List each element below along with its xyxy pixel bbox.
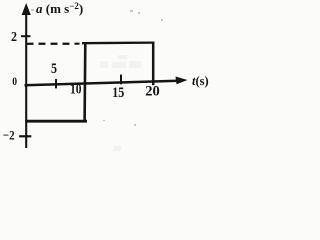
tick y=-2 (19, 135, 31, 137)
svg-text:−2: −2 (3, 127, 15, 142)
step vertical at t=20 (152, 42, 155, 85)
y-axis (25, 11, 27, 148)
dashed guide line at a=2 (27, 43, 80, 45)
tick y=2 (21, 35, 31, 37)
step vertical at t=10 (83, 42, 86, 122)
x-axis arrowhead (176, 77, 188, 85)
svg-text:20: 20 (145, 84, 160, 100)
scan noise specks (31, 9, 163, 126)
svg-text:15: 15 (112, 85, 124, 101)
tick t=5 (55, 79, 57, 88)
x-axis (25, 81, 179, 85)
svg-text:0: 0 (12, 74, 17, 88)
step bottom segment a=-2 from t=0 to t=10 (25, 120, 87, 123)
svg-text:2: 2 (11, 30, 17, 45)
svg-text:t(s): t(s) (192, 74, 209, 88)
y-axis arrowhead (22, 3, 31, 15)
faint scan watermark blobs (100, 55, 141, 151)
step top segment a=+2 from t=10 to t=20 (82, 41, 154, 44)
svg-text:5: 5 (51, 61, 57, 77)
svg-text:10: 10 (70, 82, 82, 98)
tick t=15 (120, 75, 122, 85)
